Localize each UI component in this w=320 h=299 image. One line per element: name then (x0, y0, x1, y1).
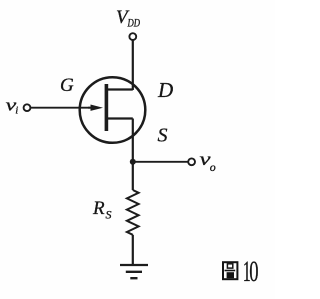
label vo (200, 149, 216, 174)
wire VDD to drain (132, 40, 134, 90)
wire resistor to ground (132, 235, 134, 265)
wire source to node (132, 119, 134, 166)
svg-text:R: R (92, 198, 105, 219)
svg-text:0: 0 (249, 255, 258, 288)
transistor Q1 (80, 77, 146, 143)
label vi (6, 96, 19, 117)
svg-text:G: G (60, 75, 74, 96)
svg-text:DD: DD (127, 18, 141, 30)
wire node to resistor (132, 162, 134, 190)
node S junction (130, 159, 136, 165)
ground (120, 265, 148, 278)
wire vi to gate (31, 107, 92, 109)
svg-text:S: S (158, 125, 168, 147)
wire node to vo (133, 161, 188, 163)
svg-text:o: o (210, 160, 216, 174)
svg-text:i: i (15, 105, 18, 117)
caption figure 10 (223, 255, 259, 288)
svg-text:S: S (106, 208, 112, 222)
resistor RS (127, 190, 139, 235)
output terminal vo (188, 158, 195, 165)
label RS (92, 198, 112, 222)
label VDD (116, 7, 141, 30)
svg-text:D: D (157, 78, 173, 102)
terminal VDD (129, 33, 136, 40)
input terminal vi (24, 104, 31, 111)
